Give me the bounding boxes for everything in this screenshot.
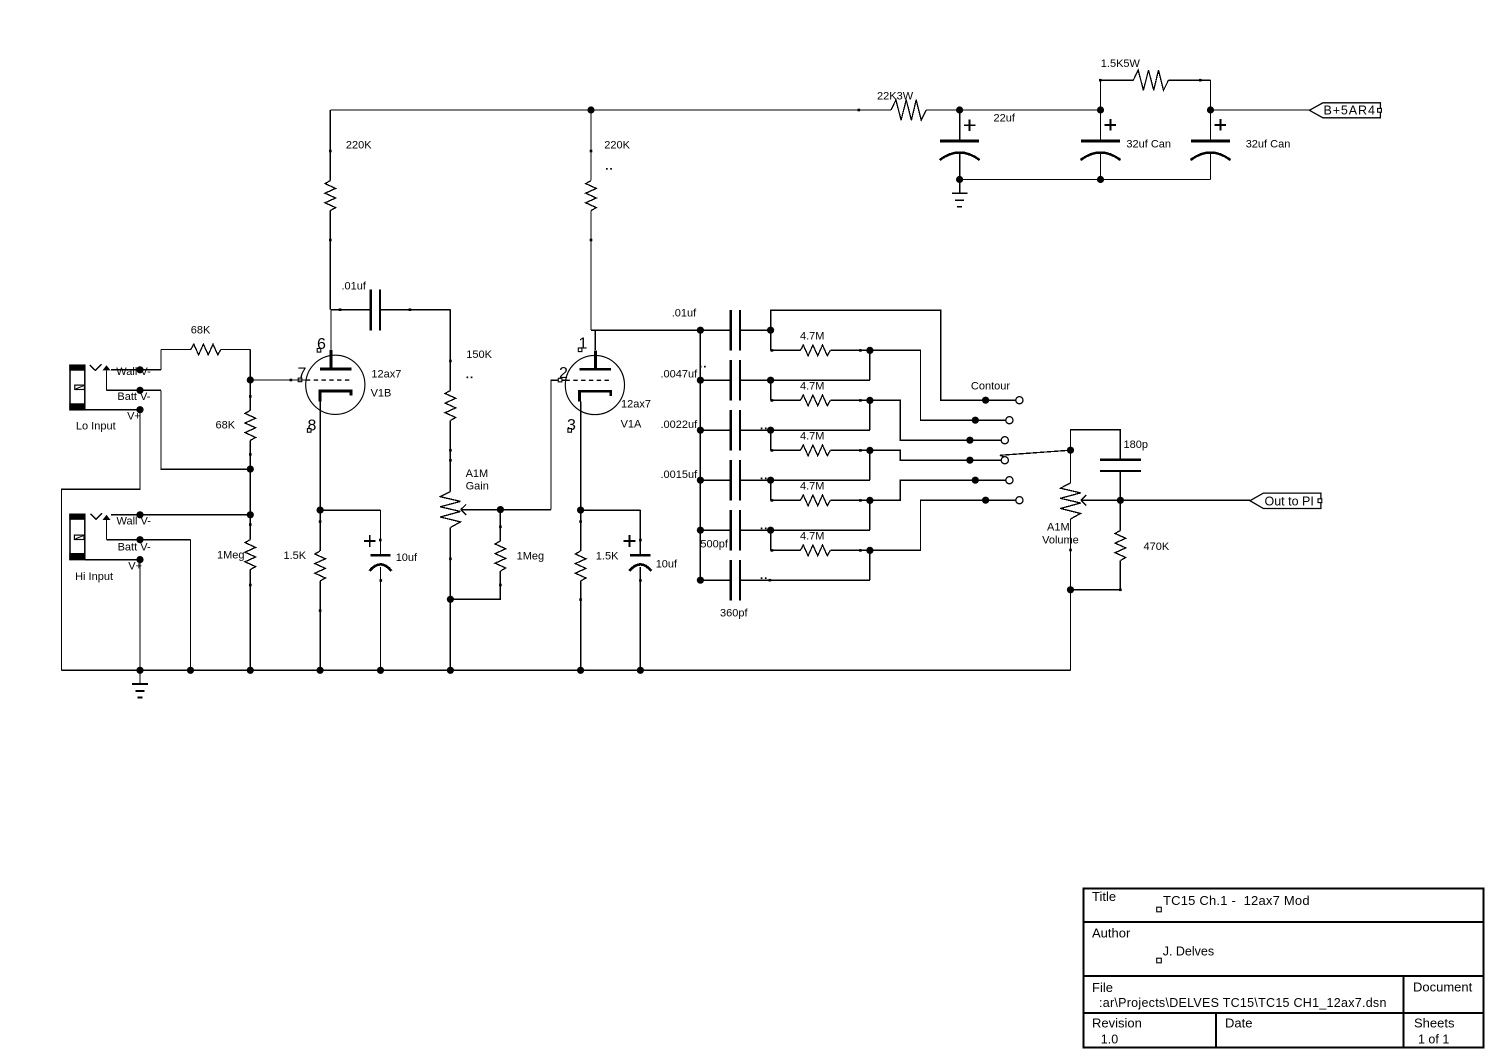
node 4.7M #3 output <box>866 447 873 454</box>
wire tone row 4 to resistor <box>770 480 772 500</box>
resistor 4.7M #2 <box>771 399 774 402</box>
svg-text:Document: Document <box>1413 979 1473 994</box>
jack Lo Input body <box>70 365 85 410</box>
svg-text:B+5AR4: B+5AR4 <box>1324 104 1376 118</box>
wire gain wiper to V1A grid <box>551 380 566 509</box>
node tone row 5 cap output <box>767 527 774 534</box>
node 22uf filter cap junction <box>956 106 963 113</box>
svg-text:.0022uf: .0022uf <box>661 419 699 431</box>
resistor 220K V1B plate load <box>329 110 331 181</box>
svg-text:Wall V-: Wall V- <box>116 366 151 378</box>
node tone bus row 6 <box>697 577 704 584</box>
resistor 1Meg gain pot load <box>499 526 502 529</box>
node Lo batt <box>136 387 143 394</box>
node gain wiper junction <box>497 506 504 513</box>
svg-text:68K: 68K <box>191 325 211 337</box>
resistor 1.5K V1A cathode <box>579 520 582 523</box>
resistor 4.7M #1 <box>771 349 774 352</box>
capacitor 32uf Can (first) <box>1100 110 1102 141</box>
node contact 5 feed <box>972 477 979 484</box>
svg-text:.0015uf: .0015uf <box>661 469 699 481</box>
node tone row 4 cap output <box>767 477 774 484</box>
wire 4.7M 3 to contact 4 <box>870 450 1001 460</box>
wire Lo V+ to ground rail <box>85 409 140 411</box>
port B+5AR4 <box>1309 103 1380 118</box>
svg-text:Wall V-: Wall V- <box>117 516 152 528</box>
node rail V1B 1.5K <box>317 667 324 674</box>
capacitor .0047uf <box>700 379 730 381</box>
wire tone stack input bus <box>699 330 701 580</box>
svg-text:Revision: Revision <box>1092 1016 1142 1031</box>
node tone row 3 cap output <box>767 427 774 434</box>
svg-text:V1B: V1B <box>371 388 392 400</box>
wire V1A plate lead <box>594 330 596 350</box>
resistor 1.5K V1B cathode <box>319 520 322 523</box>
capacitor 180p <box>1100 459 1141 461</box>
wire Hi Wall V- <box>111 514 250 516</box>
resistor 68K grid stopper <box>160 350 162 370</box>
resistor 1Meg input load <box>245 540 256 570</box>
node Hi wall <box>136 511 143 518</box>
contact 6 Contour switch <box>1016 497 1023 504</box>
node volume pot bottom <box>1067 586 1074 593</box>
node contact 2 feed <box>972 417 979 424</box>
svg-text:4.7M: 4.7M <box>800 530 824 542</box>
svg-text:Title: Title <box>1092 889 1116 904</box>
node Lo input batt return <box>247 466 254 473</box>
node output junction <box>1117 497 1124 504</box>
capacitor 32uf Can (second) <box>1210 110 1212 141</box>
svg-text:Volume: Volume <box>1042 535 1079 547</box>
wire output to port <box>1120 499 1250 501</box>
wire volume top to 180p <box>1071 430 1121 460</box>
svg-text:12ax7: 12ax7 <box>621 399 651 411</box>
node V1A plate resistor tap on B+ rail <box>587 106 594 113</box>
potentiometer A1M Gain <box>449 459 452 462</box>
resistor 4.7M #5 <box>771 549 774 552</box>
title block frame <box>1084 889 1484 1048</box>
node gain pot bottom <box>447 596 454 603</box>
node contact 4 feed <box>966 457 973 464</box>
wire Hi Batt V- to ground rail <box>107 539 191 541</box>
capacitor .0015uf <box>700 479 730 481</box>
node contact 1 feed <box>982 397 989 404</box>
triode V1B <box>306 355 365 414</box>
svg-text:A1M: A1M <box>466 468 489 480</box>
svg-text:Author: Author <box>1092 926 1131 941</box>
node rail gain pot <box>447 667 454 674</box>
wire ladder link 5 <box>869 550 871 580</box>
node Hi batt <box>136 536 143 543</box>
node Lo wall <box>136 366 143 373</box>
contact 2 Contour switch <box>1006 417 1013 424</box>
svg-text:Hi Input: Hi Input <box>75 571 113 583</box>
svg-text:10uf: 10uf <box>396 552 418 564</box>
node contact 3 feed <box>966 437 973 444</box>
node ground bus at 22uf <box>956 176 963 183</box>
wire 68K bottom to Hi input wall junction <box>249 440 251 539</box>
jack Hi Input tip contact <box>91 513 102 519</box>
svg-text::ar\Projects\DELVES TC15\TC15: :ar\Projects\DELVES TC15\TC15 CH1_12ax7.… <box>1099 996 1387 1010</box>
wire supply filter ground bus <box>960 179 1211 181</box>
wire 4.7M 1 to contact 2 <box>870 350 1006 420</box>
svg-text:Contour: Contour <box>971 381 1010 393</box>
svg-text:1Meg: 1Meg <box>517 550 545 562</box>
svg-text:22uf: 22uf <box>994 113 1016 125</box>
svg-text:1.0: 1.0 <box>1101 1033 1118 1047</box>
svg-text:500pf: 500pf <box>700 538 728 550</box>
node 4.7M #1 output <box>866 347 873 354</box>
wire B+ output <box>1211 109 1310 111</box>
wire Contour switch wiper arm <box>1000 450 1071 457</box>
jack Hi Input switch contact <box>103 515 111 520</box>
node tone bus row 5 <box>697 527 704 534</box>
resistor 1.5K5W <box>1100 80 1102 110</box>
svg-text:File: File <box>1092 980 1113 995</box>
wire tone row 2 to resistor <box>770 380 772 400</box>
capacitor 360pf <box>700 579 730 581</box>
resistor 150K <box>449 310 451 391</box>
wire ground rail <box>62 669 1071 671</box>
wire tone row 5 to resistor <box>770 530 772 550</box>
ground power supply <box>959 180 961 194</box>
svg-text:.01uf: .01uf <box>672 308 697 320</box>
port Out to PI <box>1250 493 1321 508</box>
svg-text:4.7M: 4.7M <box>800 380 824 392</box>
contact 3 Contour switch <box>1001 437 1008 444</box>
svg-text:1.5K: 1.5K <box>596 550 619 562</box>
svg-text:Lo Input: Lo Input <box>76 421 116 433</box>
svg-text:A1M: A1M <box>1047 522 1070 534</box>
svg-text:10uf: 10uf <box>656 559 678 571</box>
node second 32uf can positive <box>1207 106 1214 113</box>
wire V1A cathode to bypass cap <box>581 509 641 511</box>
wire Lo Wall V- <box>111 369 161 371</box>
wire 4.7M 2 to contact 3 <box>870 400 1001 440</box>
svg-text:1.5K: 1.5K <box>284 550 307 562</box>
node tone bus row 4 <box>697 477 704 484</box>
node tone row 2 cap output <box>767 377 774 384</box>
node tone bus row 3 <box>697 427 704 434</box>
node tone bus row 1 <box>697 327 704 334</box>
node rail V1A 10uf <box>637 667 644 674</box>
wire V1A cathode lead <box>580 402 582 511</box>
wire tone row 1 to resistor <box>770 330 772 350</box>
resistor 4.7M #3 <box>771 449 774 452</box>
node Hi V+ <box>136 556 143 563</box>
wire volume bottom to ground rail <box>1070 590 1072 671</box>
resistor 68K to ground bus <box>245 410 256 440</box>
wire left bus 68K junction down <box>249 350 251 411</box>
node tone row 1 cap output <box>767 327 774 334</box>
wire ladder link 4 <box>869 500 871 530</box>
node 4.7M #5 output <box>866 547 873 554</box>
svg-text:Out to PI: Out to PI <box>1265 494 1314 508</box>
capacitor 500pf <box>700 529 730 531</box>
svg-text:Gain: Gain <box>466 481 489 493</box>
contact 1 Contour switch <box>1016 397 1023 404</box>
node rail 1Meg <box>247 667 254 674</box>
node V1B grid junction <box>247 376 254 383</box>
capacitor 10uf V1B cathode bypass <box>380 510 382 555</box>
svg-text:68K: 68K <box>216 420 236 432</box>
svg-text:Sheets: Sheets <box>1414 1016 1455 1031</box>
capacitor .0022uf <box>700 429 730 431</box>
jack Lo Input tip contact <box>90 364 101 370</box>
wire V1B cathode to bypass cap <box>320 509 380 511</box>
node rail V1B 10uf <box>377 667 384 674</box>
svg-text:V1A: V1A <box>621 419 642 431</box>
wire B+ rail 22K3W to first filter caps <box>926 109 1100 111</box>
node tone bus row 2 <box>697 377 704 384</box>
node rail V1A 1.5K <box>577 667 584 674</box>
capacitor 10uf V1A cathode bypass <box>639 510 641 555</box>
jack Lo Input switch contact <box>103 365 111 370</box>
svg-text:1.5K5W: 1.5K5W <box>1101 58 1141 70</box>
node V1A cathode junction <box>577 507 584 514</box>
capacitor .01uf coupling V1B <box>330 309 370 311</box>
wire V1B grid from 68K junction <box>250 379 306 381</box>
svg-text:220K: 220K <box>604 140 630 152</box>
svg-text:TC15 Ch.1 - 12ax7 Mod: TC15 Ch.1 - 12ax7 Mod <box>1163 893 1310 908</box>
node V1B cathode junction <box>317 507 324 514</box>
node ground bus at first 32uf can <box>1097 176 1104 183</box>
wire V1B plate lead <box>330 310 332 351</box>
svg-text:470K: 470K <box>1144 541 1170 553</box>
svg-text:1Meg: 1Meg <box>217 550 245 562</box>
resistor 22K3W <box>858 109 861 112</box>
svg-text:32uf Can: 32uf Can <box>1246 139 1291 151</box>
svg-text:220K: 220K <box>346 140 372 152</box>
svg-text:180p: 180p <box>1124 439 1148 451</box>
wire V1A plate to tone stack <box>591 329 700 331</box>
resistor 4.7M #4 <box>771 499 774 502</box>
node Hi input wall junction <box>247 511 254 518</box>
node contact 6 feed <box>982 497 989 504</box>
capacitor 22uf <box>959 110 961 141</box>
svg-text:.0047uf: .0047uf <box>661 369 699 381</box>
svg-text:360pf: 360pf <box>720 608 748 620</box>
ground input <box>139 670 141 684</box>
svg-text:4.7M: 4.7M <box>800 430 824 442</box>
wire Hi V+ to ground <box>85 559 140 561</box>
wire ladder link 3 <box>869 450 871 480</box>
node rail Hi batt <box>187 667 194 674</box>
svg-text:Date: Date <box>1225 1015 1252 1030</box>
svg-text:32uf Can: 32uf Can <box>1126 139 1171 151</box>
svg-text:Batt V-: Batt V- <box>117 391 150 403</box>
wire B+ supply rail from V1B plate resistor to 22K3W <box>330 109 891 111</box>
node 4.7M #4 output <box>866 497 873 504</box>
svg-text:4.7M: 4.7M <box>800 330 824 342</box>
svg-text:1 of 1: 1 of 1 <box>1418 1033 1449 1047</box>
svg-text:Batt V-: Batt V- <box>118 542 151 554</box>
jack Hi Input body <box>70 514 85 559</box>
svg-text:12ax7: 12ax7 <box>371 369 401 381</box>
triode V1A <box>565 355 624 414</box>
svg-text:J. Delves: J. Delves <box>1163 945 1214 959</box>
wire Lo Batt V- <box>107 389 162 391</box>
node rail Hi V+ <box>136 667 143 674</box>
node first 32uf can positive <box>1097 106 1104 113</box>
node 4.7M #2 output <box>866 397 873 404</box>
wire tone row 1 to contact 1 <box>771 310 1016 400</box>
wire V1B cathode lead <box>319 401 321 510</box>
capacitor .01uf <box>700 329 730 331</box>
resistor 470K output load <box>1119 500 1121 530</box>
contact 4 Contour switch <box>1001 457 1008 464</box>
svg-text:4.7M: 4.7M <box>800 480 824 492</box>
wire tone row 3 to resistor <box>770 430 772 450</box>
svg-text:.01uf: .01uf <box>342 281 367 293</box>
potentiometer A1M Volume <box>1070 450 1072 483</box>
wire ladder link 2 <box>869 400 871 430</box>
svg-text:22K3W: 22K3W <box>877 91 914 103</box>
resistor 220K V1A plate load <box>590 110 592 181</box>
wire 4.7M 5 to contact 6 <box>870 500 1016 550</box>
svg-text:150K: 150K <box>466 349 492 361</box>
node volume pot top <box>1067 447 1074 454</box>
contact 5 Contour switch <box>1006 477 1013 484</box>
node Lo V+ <box>136 406 143 413</box>
wire 4.7M 4 to contact 5 <box>870 480 1006 500</box>
wire ladder link 1 <box>869 350 871 380</box>
